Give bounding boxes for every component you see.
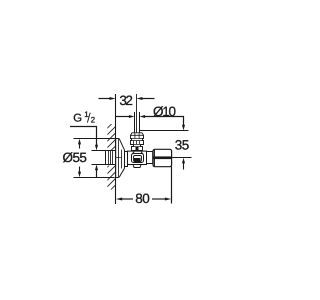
handle knob [153,149,172,166]
nut facets [135,133,139,138]
supply pipe [92,151,106,165]
dimension 32 [99,97,155,100]
collar dark tick [136,147,139,150]
flange front face line [121,150,123,169]
body front face [132,154,144,163]
svg-text:Ø10: Ø10 [153,104,176,119]
stack separator lines [131,135,144,146]
svg-text:Ø55: Ø55 [62,150,87,165]
flange centre tick [116,157,121,159]
svg-text:35: 35 [175,137,190,152]
flange rim line [118,139,120,177]
body front dark recess [134,158,141,162]
wall hatching [101,108,121,226]
compression nut and bonnet stack [131,133,144,151]
dimension Ø10 [116,115,184,126]
svg-text:G: G [73,113,82,125]
flange escutcheon [116,139,125,178]
svg-text:80: 80 [135,191,150,206]
knurl lines [134,141,140,145]
outlet stem (right) [147,152,153,164]
pipe thread coupling [106,151,116,165]
wall face line [115,94,117,204]
dimension Ø55 [74,139,118,178]
centerline of outlet [136,94,138,138]
svg-text:32: 32 [119,93,133,108]
handle dark band [153,156,171,159]
valve body [128,151,147,164]
dimension 80 [116,167,172,204]
dimension 35 [140,125,192,170]
outlet pipe (vertical, top) [135,112,140,133]
union collar at flange front [125,152,128,167]
G1/2 leader [70,127,98,178]
body bottom boss [133,165,141,168]
body chamfer marks [132,152,143,155]
svg-text:2: 2 [91,115,96,124]
